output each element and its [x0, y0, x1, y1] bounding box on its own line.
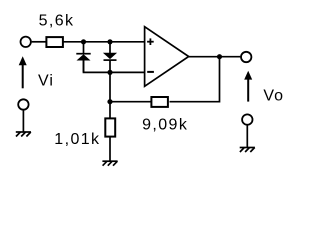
wire lower-left terminal to ground	[22, 110, 24, 132]
resistor R3 9,09k (feedback)	[151, 97, 168, 107]
node dot B (top of D2)	[107, 39, 112, 44]
wire terminal to R1	[32, 41, 46, 43]
wire feedback: output node down, left through R3 to node D	[170, 57, 220, 102]
wire lower-right terminal to ground	[246, 125, 248, 147]
svg-text:1,01k: 1,01k	[54, 131, 100, 148]
arrow Vo	[244, 71, 252, 102]
input terminal (left)	[21, 37, 31, 47]
wire R1 to op-amp + input (top rail)	[63, 41, 145, 43]
terminal lower-left	[18, 99, 28, 109]
node dot E (output node)	[217, 54, 222, 59]
wire node C down to R2	[109, 72, 111, 118]
diode D1 (pointing up, left)	[76, 42, 90, 73]
ground (lower-left)	[16, 132, 31, 137]
resistor R2 1,01k (vertical)	[105, 118, 115, 136]
svg-text:Vo: Vo	[263, 87, 284, 104]
node dot A (top of D1)	[81, 39, 86, 44]
node dot D (feedback tap)	[107, 99, 112, 104]
node dot C (inverting node)	[107, 70, 112, 75]
wire bottom rail (D1 bottom to op-amp - input)	[84, 60, 145, 72]
wire op-amp output to output terminal	[189, 56, 241, 58]
diode D2 (pointing down, right)	[103, 42, 117, 73]
wire R2 to ground	[109, 137, 111, 162]
arrow Vi	[19, 56, 27, 88]
ground (lower-right)	[240, 148, 255, 153]
terminal lower-right	[242, 114, 252, 124]
resistor R1 5,6k	[46, 37, 63, 47]
svg-text:Vi: Vi	[38, 73, 54, 90]
op-amp U1	[145, 27, 189, 87]
output terminal (right)	[241, 52, 251, 62]
ground (below R2)	[102, 161, 117, 166]
svg-text:9,09k: 9,09k	[142, 116, 188, 133]
svg-text:5,6k: 5,6k	[39, 13, 75, 30]
